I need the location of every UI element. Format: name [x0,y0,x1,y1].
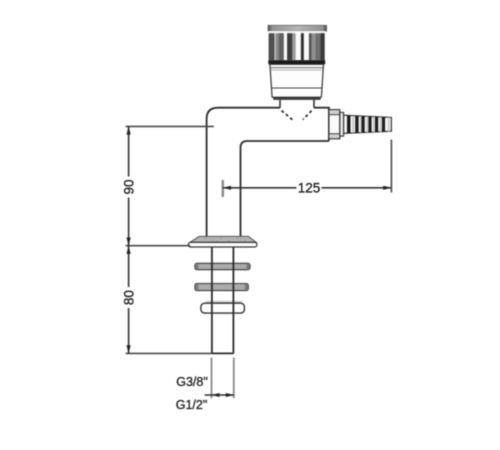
bonnet bottom cap [273,97,320,100]
handle top cap [268,25,327,31]
extension line bottom (80) [126,352,212,354]
center tick (125) [222,180,224,197]
handle knurl bottom dark band [268,60,325,64]
flange stipple [204,238,245,242]
svg-text:125: 125 [298,180,321,195]
locknut ring [201,301,245,313]
thread dimension line [205,394,234,396]
dimension 125 line [223,187,392,189]
outlet collar [329,110,340,139]
bonnet [270,64,324,97]
thread extension lines [212,358,234,399]
outlet ring [340,112,344,136]
handle knurled grip [268,31,325,60]
extension line mid (90/80) [126,245,191,247]
svg-text:G1/2": G1/2" [176,398,208,412]
dimension 80 arrows [127,246,131,354]
dimension 80 line [128,246,130,354]
lower pipe [212,247,234,353]
svg-text:G3/8": G3/8" [176,375,208,389]
dimension 125 arrows [223,186,392,190]
chamfer V marks [282,111,312,121]
thread dimension arrows [212,393,234,397]
body elbow outline [207,108,329,237]
svg-text:90: 90 [122,179,137,194]
extension line top (90) [126,125,214,127]
extension line right (125) [390,140,392,193]
dimension 90 arrows [127,126,131,245]
disc 2 [195,284,248,291]
mounting flange lip [188,242,257,247]
dimension 90 line [128,126,130,245]
neck [280,100,314,108]
hose barb nozzle [344,115,392,133]
svg-text:80: 80 [122,290,137,305]
mounting flange cone [190,236,256,242]
disc 1 [195,263,250,269]
